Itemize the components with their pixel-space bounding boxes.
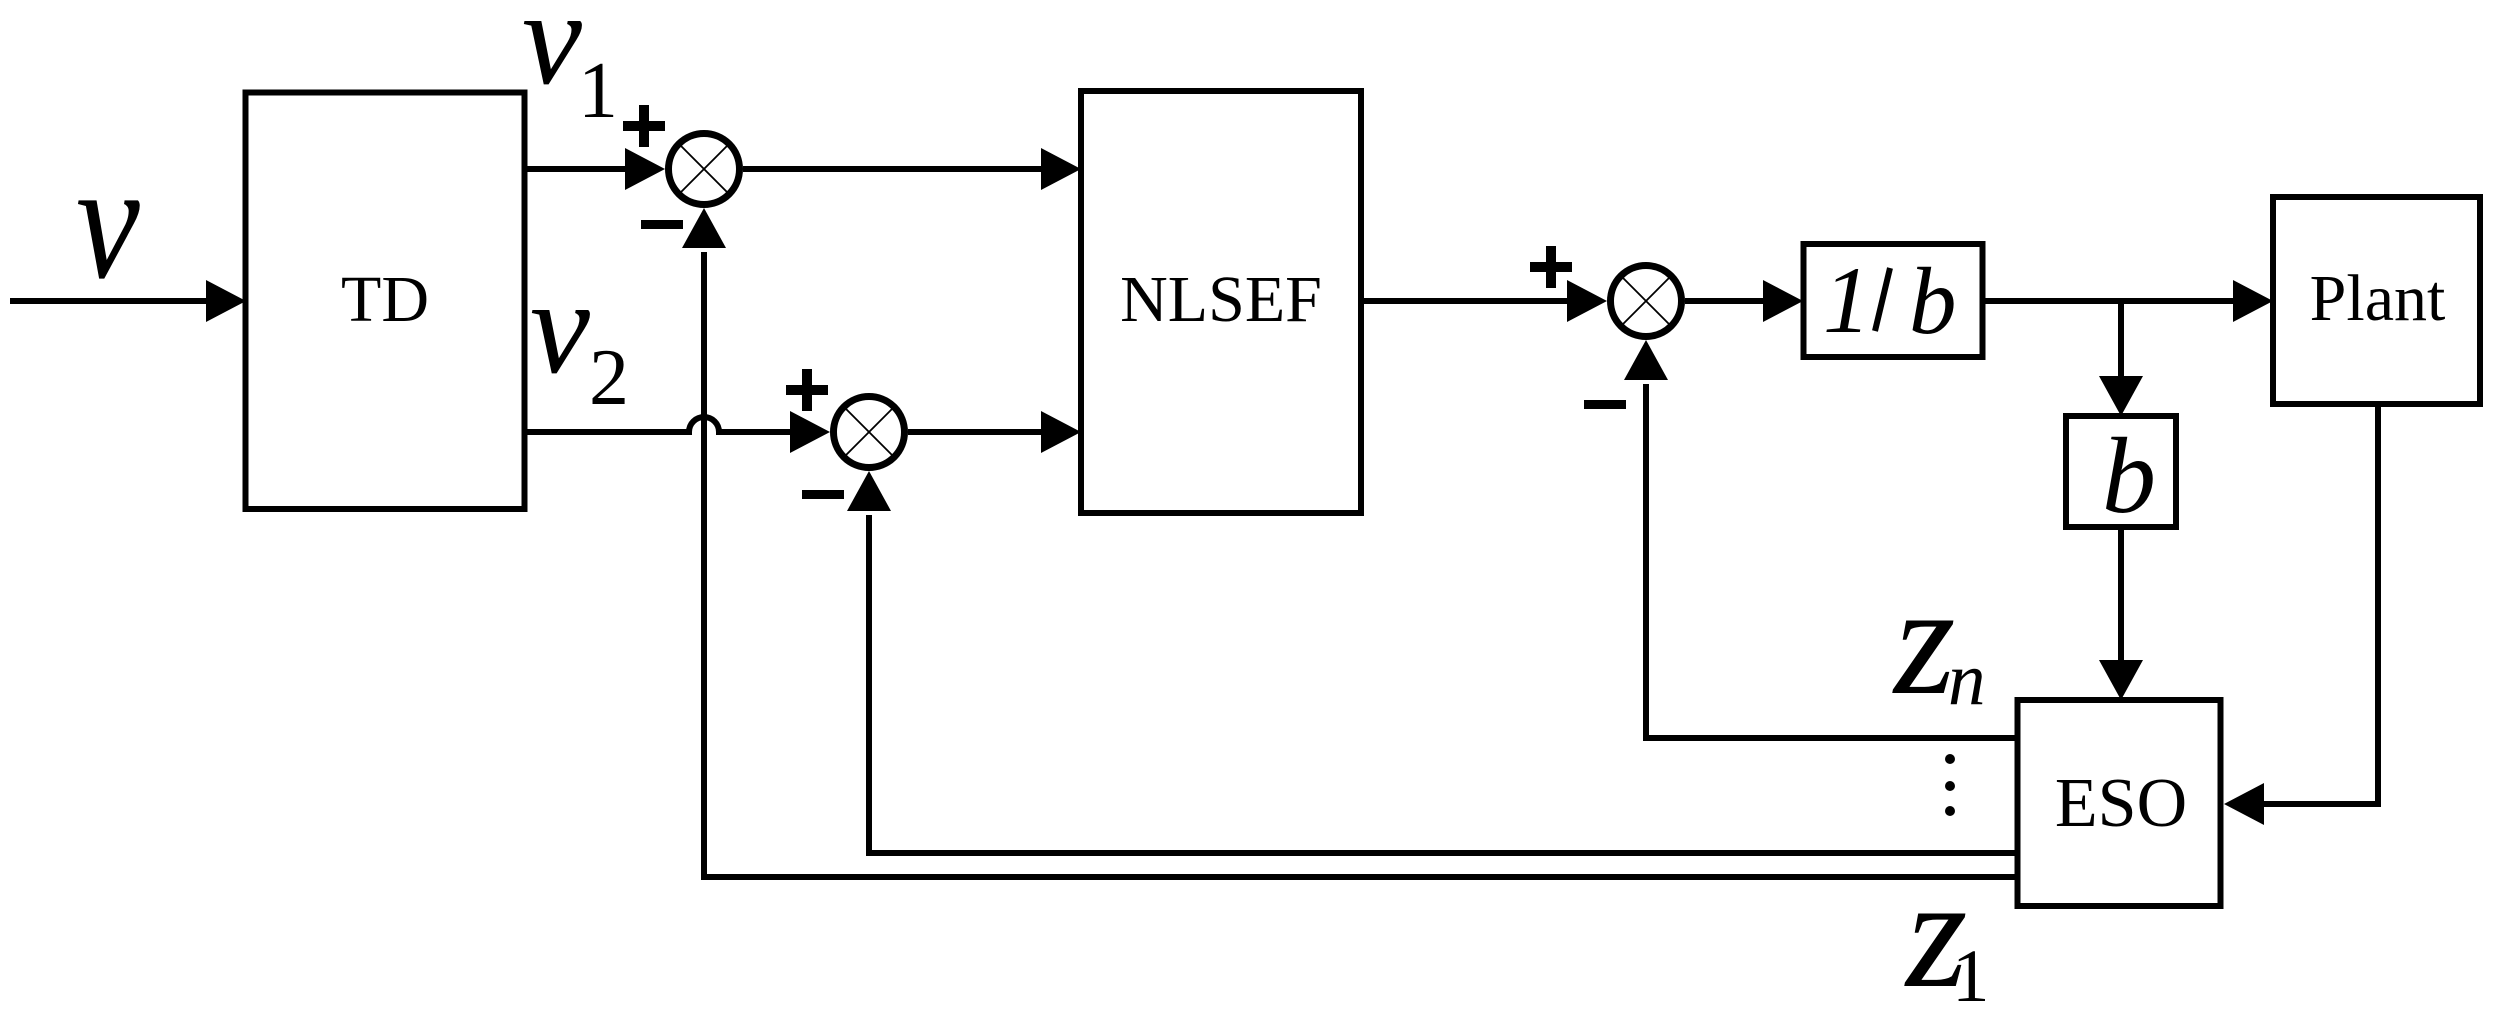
wire: input v into TD xyxy=(10,280,246,322)
wire: ESO z_2 output to S2 (feedback) xyxy=(847,471,2019,853)
block TD xyxy=(246,93,525,510)
wire: TD to summing junction S1 xyxy=(524,148,665,190)
svg-text:v: v xyxy=(76,128,141,313)
svg-text:b: b xyxy=(2102,417,2156,536)
summing junction S3 xyxy=(1611,266,1682,337)
svg-text:1: 1 xyxy=(1823,247,1871,353)
label v2 xyxy=(530,253,629,422)
block 1/b xyxy=(1804,244,1983,357)
wire: 1/b to Plant xyxy=(1983,280,2273,322)
minus sign at S2 xyxy=(802,490,844,499)
wire: ESO z_n output to S3 (feedback) xyxy=(1624,340,2019,738)
wire: S1 to NLSEF xyxy=(743,148,1081,190)
plus sign at S3 xyxy=(1530,246,1572,288)
svg-text:Plant: Plant xyxy=(2310,262,2446,335)
wire: b to ESO xyxy=(2099,527,2143,700)
svg-text:2: 2 xyxy=(589,334,629,422)
summing junction S2 xyxy=(834,397,905,468)
svg-text:v: v xyxy=(530,253,590,402)
block Plant xyxy=(2273,197,2480,404)
minus sign at S1 xyxy=(641,220,683,229)
block ESO xyxy=(2018,700,2221,906)
minus sign at S3 xyxy=(1584,400,1626,409)
wire: ESO z_1 output to S1 (feedback) xyxy=(682,208,2019,877)
svg-text:b: b xyxy=(1909,248,1957,354)
wire: S2 to NLSEF xyxy=(908,411,1081,453)
block b xyxy=(2066,416,2176,536)
svg-text:v: v xyxy=(522,0,582,113)
wire: S3 to block 1/b xyxy=(1685,280,1803,322)
svg-text:ESO: ESO xyxy=(2055,765,2187,842)
svg-text:NLSEF: NLSEF xyxy=(1120,263,1322,336)
wire: branch down from 1/b output to block b xyxy=(2099,301,2143,416)
svg-text:TD: TD xyxy=(341,263,429,336)
label z_1 xyxy=(1904,846,1990,1020)
wire: Plant down and into ESO right side xyxy=(2224,404,2378,825)
summing junction S1 xyxy=(669,134,740,205)
wire: TD to summing junction S2 (with hop over z1 line) xyxy=(524,411,830,453)
plus sign at S1 xyxy=(623,105,665,147)
label z_n xyxy=(1892,553,1986,728)
svg-text:1: 1 xyxy=(1952,935,1990,1018)
svg-text:n: n xyxy=(1948,638,1986,721)
block NLSEF xyxy=(1081,91,1361,513)
label v1 xyxy=(522,0,618,135)
vertical dots xyxy=(1945,754,1955,816)
wire: NLSEF to summing junction S3 xyxy=(1361,280,1607,322)
svg-text:1: 1 xyxy=(578,47,618,135)
plus sign at S2 xyxy=(786,369,828,411)
label v (input) xyxy=(76,128,141,313)
svg-text:z: z xyxy=(1892,553,1956,728)
